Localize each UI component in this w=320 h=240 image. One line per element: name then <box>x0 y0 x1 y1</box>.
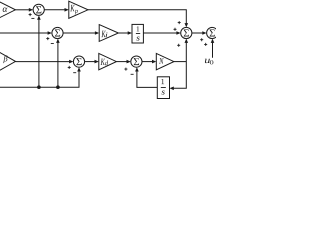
riser to S1 <box>38 19 40 88</box>
wire alpha to S1 <box>15 9 30 11</box>
integrator fraction 1 over s <box>136 26 140 40</box>
arrowhead into S2 <box>48 31 52 35</box>
sigma glyph S2 <box>55 29 60 36</box>
label Kd <box>101 59 109 66</box>
sign plus S6 left <box>200 38 203 41</box>
gain alpha triangle <box>0 1 15 19</box>
wire beta to S3 <box>16 61 71 63</box>
arrowhead into S4 left <box>127 60 131 64</box>
arrowhead into S1 <box>29 8 33 12</box>
wire integrator to S5 <box>143 32 177 34</box>
arrowhead up into S3 bottom <box>77 67 81 71</box>
arrowhead into Ki <box>95 31 99 35</box>
sign minus S1 <box>31 17 34 19</box>
gain Ki triangle <box>99 25 118 42</box>
wire derivative junction up to S5 bottom and down to filter box <box>173 42 187 89</box>
gain Kp triangle <box>69 1 88 18</box>
integrator box 1/s <box>132 24 143 43</box>
sigma glyph S6 <box>210 29 215 36</box>
sign plus S2 <box>46 37 49 40</box>
arrowhead into S5 left <box>176 31 180 35</box>
summer S1 circle <box>33 4 44 15</box>
u0 input riser to S6 <box>212 42 214 58</box>
sign minus S3 <box>73 72 76 74</box>
sign minus S4 <box>131 73 134 75</box>
filter fraction 1 over s <box>161 79 166 95</box>
measurement feedback line to S3 <box>0 70 79 87</box>
arrowhead into Kp <box>65 8 69 12</box>
arrowhead into Kd <box>95 60 99 64</box>
sigma glyph S5 <box>184 29 189 36</box>
arrowhead into filter box <box>170 87 174 91</box>
riser to S2 <box>57 42 59 87</box>
sign plus S5 bottom <box>177 44 180 47</box>
sign plus S4 <box>124 68 127 71</box>
label u0 <box>205 59 213 65</box>
summer S3 circle <box>73 56 84 67</box>
junction dot riser S1 <box>37 85 41 89</box>
sign minus S2 <box>51 43 54 45</box>
arrowhead up into S1 bottom <box>37 15 41 19</box>
wire Kd to S4 <box>116 61 127 63</box>
junction dot riser S2 <box>56 85 60 89</box>
arrowhead up into S5 bottom <box>185 39 189 43</box>
wire S5 to S6 <box>192 32 204 34</box>
arrowhead into S3 <box>69 60 73 64</box>
sigma glyph S3 <box>76 58 81 65</box>
label alpha <box>3 7 8 12</box>
wire reference input to S2 <box>0 32 49 34</box>
arrowhead up into S4 bottom <box>135 67 139 71</box>
gain Kd triangle <box>99 53 117 69</box>
gain N triangle <box>156 53 174 69</box>
gain beta triangle <box>0 51 16 72</box>
wire Ki to integrator box <box>118 32 128 34</box>
wire S2 to Ki <box>63 32 96 34</box>
wire S3 to Kd <box>85 61 96 63</box>
arrowhead into integrator box <box>128 31 132 35</box>
arrowhead down into S5 top <box>185 23 189 27</box>
wire filter box to S4 bottom <box>137 70 157 87</box>
summer S6 circle <box>207 27 218 38</box>
arrowhead into N <box>152 60 156 64</box>
label beta <box>3 55 7 63</box>
sign plus S5 top <box>178 21 181 24</box>
wire N output to derivative junction <box>174 61 186 63</box>
arrowhead up into S2 bottom <box>56 39 60 43</box>
wire Kp output to S5 top <box>88 10 186 24</box>
wire S4 to N <box>142 61 153 63</box>
sign plus S1 <box>29 13 32 16</box>
arrowhead up into S6 bottom <box>211 39 215 43</box>
summer S5 circle <box>181 27 192 38</box>
label Ki <box>101 31 107 37</box>
summer S4 circle <box>131 56 142 67</box>
sign plus S3 <box>68 66 71 69</box>
filter box 1/s <box>157 77 169 99</box>
wire S1 to Kp <box>44 9 65 11</box>
sigma glyph S4 <box>134 58 139 65</box>
summer S2 circle <box>52 27 63 38</box>
label N <box>159 58 164 64</box>
arrowhead into S6 left <box>202 31 206 35</box>
sigma glyph S1 <box>36 6 41 13</box>
label Kp <box>70 5 78 14</box>
sign plus S6 bottom <box>204 43 207 46</box>
sign plus S5 left <box>174 28 177 31</box>
